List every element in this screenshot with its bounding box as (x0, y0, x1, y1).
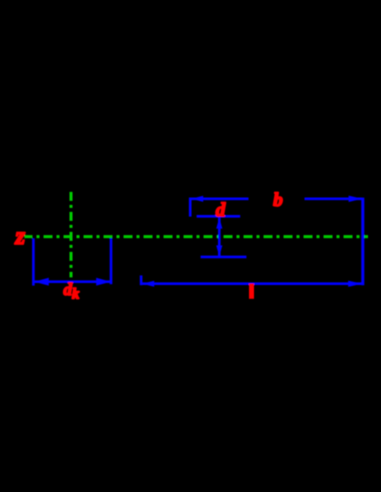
b dimension left corner vertical (189, 198, 192, 217)
svg-text:dk: dk (64, 280, 81, 303)
arrow d down (216, 245, 222, 256)
extension line dk left (32, 238, 35, 285)
l dimension line (142, 282, 363, 285)
right vertical shared by b and l dimensions (361, 198, 364, 286)
extension line dk right (110, 238, 113, 284)
b dimension line left segment (189, 198, 249, 201)
svg-text:d: d (216, 200, 226, 221)
label l (249, 284, 253, 298)
dimension line dk (34, 280, 111, 283)
d dimension vertical line (218, 217, 221, 257)
arrow b left (191, 196, 203, 202)
l dimension left tick (140, 275, 143, 285)
arrow l left (142, 281, 154, 287)
svg-text:z: z (14, 223, 25, 250)
d extension line bottom (201, 256, 247, 259)
horizontal centerline (screw axis) (25, 235, 369, 238)
vertical centerline (head front view axis) (70, 191, 73, 278)
arrow b right (349, 196, 363, 202)
svg-text:b: b (273, 190, 283, 211)
arrow dk left (34, 278, 49, 286)
arrow d up (216, 218, 222, 229)
arrow dk right (96, 278, 111, 286)
arrow l right (348, 281, 362, 287)
b dimension line right segment (305, 198, 363, 201)
d extension line top (197, 215, 241, 218)
